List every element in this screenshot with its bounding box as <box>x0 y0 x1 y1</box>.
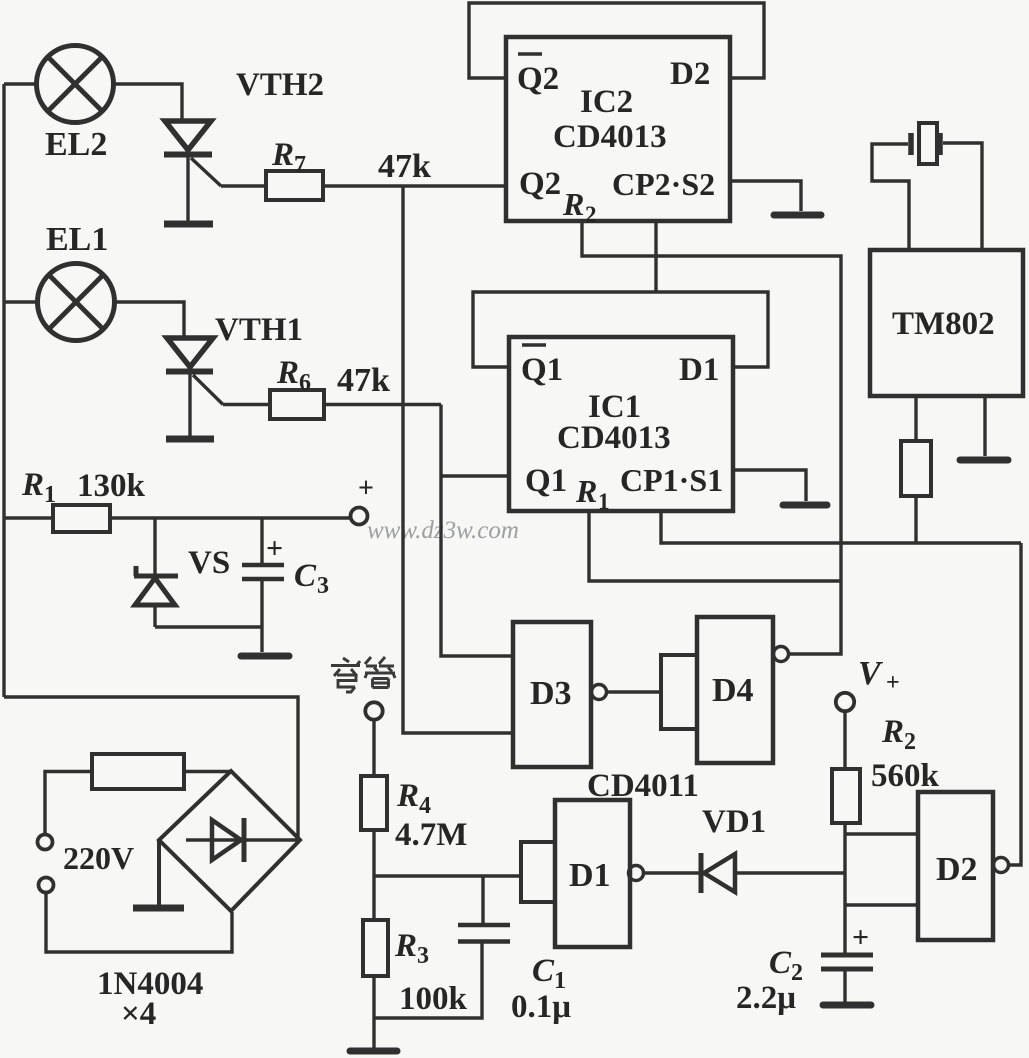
wire left rail <box>2 84 5 697</box>
svg-text:VTH1: VTH1 <box>215 312 303 348</box>
svg-text:Q2: Q2 <box>519 166 561 202</box>
svg-text:D2: D2 <box>936 851 978 888</box>
svg-text:CD4013: CD4013 <box>557 420 671 456</box>
wire terminal to R4 <box>372 719 375 776</box>
svg-text:R: R <box>562 186 584 222</box>
gate D1 <box>521 842 555 902</box>
ground under C3 <box>241 653 289 660</box>
svg-text:Q2: Q2 <box>517 61 559 97</box>
gate D2 <box>918 792 993 940</box>
svg-text:7: 7 <box>294 152 306 178</box>
wire R6 to node <box>324 403 441 406</box>
wire fuse right to bridge top <box>184 770 231 773</box>
capacitor C1 <box>458 876 510 942</box>
svg-text:CP1·S1: CP1·S1 <box>620 462 723 498</box>
svg-text:D4: D4 <box>712 672 754 709</box>
label C2 2.2u <box>736 945 803 1016</box>
wire D3 to D4 <box>607 690 661 693</box>
thyristor VTH2 <box>164 121 221 224</box>
svg-text:2.2μ: 2.2μ <box>736 980 796 1016</box>
node terminal wan guan <box>365 702 382 719</box>
resistor below TM802 <box>901 441 931 496</box>
resistor R7 <box>266 171 323 200</box>
resistor R4 <box>361 776 387 830</box>
wire IC1 R1 pin to D4 net <box>589 511 841 581</box>
lamp EL1 <box>38 264 115 341</box>
svg-text:4: 4 <box>419 793 431 819</box>
bridge rectifier 1N4004 x4 <box>159 771 300 911</box>
svg-text:VD1: VD1 <box>702 804 766 840</box>
wire EL1 to VTH1 <box>115 302 185 337</box>
svg-text:VS: VS <box>188 545 230 581</box>
wire rail to R1 <box>4 516 53 519</box>
crystal sensor <box>911 123 940 164</box>
wire TM802 right pin to ground <box>983 396 986 456</box>
capacitor C3 <box>242 518 284 652</box>
wire VTH2 gate to R7 <box>221 184 266 187</box>
wire R3 to ground <box>372 976 375 1048</box>
label C1 0.1u <box>511 953 571 1025</box>
node terminal bottom <box>39 878 54 893</box>
diode VD1 <box>701 853 735 893</box>
wire node to Q1 <box>441 474 509 477</box>
svg-text:C: C <box>294 558 317 594</box>
node V+ terminal <box>836 693 854 711</box>
wire CP2S2 to ground <box>730 181 801 211</box>
IC1 CD4013 <box>509 337 733 511</box>
wire R1 to + terminal <box>110 516 351 519</box>
wire resistor to D2 net <box>914 496 917 543</box>
wire IC2 pin to Q1bar net <box>654 221 657 292</box>
ground TM802 <box>960 457 1008 464</box>
svg-text:0.1μ: 0.1μ <box>511 989 571 1025</box>
wire VTH1 gate to R6 <box>223 403 270 406</box>
overbar Q1 <box>522 343 546 347</box>
wire bottom terminal to bridge <box>46 893 232 952</box>
svg-text:C: C <box>532 953 555 989</box>
svg-text:D1: D1 <box>569 857 611 894</box>
svg-text:+: + <box>852 921 869 954</box>
gate D4 <box>661 655 697 729</box>
resistor R3 <box>363 920 388 976</box>
label wan guan (Chinese) <box>331 657 395 692</box>
wire TM802 left pin <box>914 396 917 441</box>
wire node 47k down to D3 <box>403 186 513 733</box>
svg-text:3: 3 <box>417 943 429 969</box>
svg-text:R: R <box>21 467 44 503</box>
svg-text:D2: D2 <box>670 56 710 92</box>
fuse rect 220V input <box>92 754 184 789</box>
svg-text:R: R <box>271 137 294 173</box>
capacitor C2 <box>821 921 873 1002</box>
label R4 4.7M <box>395 778 467 853</box>
bubble D3 out <box>592 685 607 700</box>
wire VD1 to node <box>735 871 845 874</box>
wire CP1S1 to ground <box>733 470 806 501</box>
svg-text:Q1: Q1 <box>521 352 563 388</box>
wire D1 to VD1 <box>644 871 701 874</box>
label R3 100k <box>394 928 468 1017</box>
wire R2 down to C2 <box>843 823 846 955</box>
wire node to D2 input 2 <box>845 903 918 906</box>
ground R3 <box>350 1048 397 1055</box>
lamp EL2 <box>37 46 114 123</box>
gate D3 <box>513 622 591 767</box>
svg-text:560k: 560k <box>871 758 940 794</box>
svg-text:2: 2 <box>585 202 597 227</box>
wire EL2 to VTH2 <box>114 84 183 120</box>
wire D4 out to R2 pin of IC2 <box>582 221 841 654</box>
svg-text:6: 6 <box>299 370 311 396</box>
label R2 560k <box>871 714 940 794</box>
wire D2 out up to net <box>1008 543 1021 865</box>
svg-text:R: R <box>276 355 299 391</box>
svg-text:VTH2: VTH2 <box>236 67 324 103</box>
svg-text:4.7M: 4.7M <box>395 817 467 853</box>
resistor R2 <box>832 769 860 823</box>
svg-text:130k: 130k <box>77 468 146 504</box>
svg-text:EL1: EL1 <box>46 221 108 258</box>
svg-text:R: R <box>396 778 419 814</box>
wire Q2bar to D2 feedback <box>469 3 764 78</box>
svg-text:CD4013: CD4013 <box>553 119 667 155</box>
wire node down to D3 <box>441 405 513 657</box>
svg-text:100k: 100k <box>399 981 468 1017</box>
svg-text:Q1: Q1 <box>525 463 567 499</box>
wire node to D1 input <box>374 874 521 877</box>
wire node to D2 input 1 <box>845 832 918 835</box>
node terminal top <box>38 835 53 850</box>
svg-text:V: V <box>858 655 883 692</box>
bubble D4 out <box>774 647 789 662</box>
thyristor VTH1 <box>166 338 223 439</box>
ground C2 <box>823 1002 871 1009</box>
svg-text:+: + <box>886 670 900 696</box>
wire Q1bar to D1 feedback <box>473 292 768 367</box>
svg-text:3: 3 <box>317 573 329 599</box>
ground CP2S2 <box>774 212 821 219</box>
label R1 130k <box>21 467 146 508</box>
svg-text:47k: 47k <box>378 148 431 185</box>
wire R4 to R3 <box>372 830 375 920</box>
wire C1 bottom to R3 bottom <box>374 944 482 1019</box>
svg-text:www.dz3w.com: www.dz3w.com <box>367 517 519 544</box>
svg-text:+: + <box>358 473 374 504</box>
zener VS <box>134 518 178 627</box>
bubble D1 out <box>629 866 644 881</box>
label C3 <box>294 558 329 599</box>
svg-text:CP2·S2: CP2·S2 <box>612 166 715 202</box>
svg-text:1: 1 <box>598 489 610 514</box>
ground CP1S1 <box>783 502 827 509</box>
wire VS to C3 <box>155 625 262 628</box>
svg-text:R: R <box>881 714 904 750</box>
ground bridge <box>133 840 184 908</box>
svg-text:2: 2 <box>904 729 916 755</box>
svg-text:TM802: TM802 <box>892 306 995 342</box>
svg-text:R: R <box>394 928 417 964</box>
node + terminal <box>351 508 368 525</box>
svg-text:47k: 47k <box>337 362 390 399</box>
wire fuse left to terminal <box>45 772 92 835</box>
wire crystal left to TM802 <box>872 144 909 250</box>
bubble D2 out <box>994 858 1009 873</box>
svg-text:1: 1 <box>44 482 56 508</box>
wire EL2 left <box>4 82 37 85</box>
wire IC1 S1 pin to D2 net <box>661 511 1021 543</box>
svg-text:EL2: EL2 <box>45 126 107 163</box>
resistor R1 <box>53 505 110 532</box>
overbar Q2 <box>518 52 542 56</box>
svg-text:×4: ×4 <box>121 996 156 1032</box>
wire EL1 left <box>4 300 38 303</box>
label R7 <box>271 137 306 178</box>
IC2 CD4013 <box>506 37 730 221</box>
svg-text:+: + <box>266 532 283 565</box>
svg-text:IC2: IC2 <box>580 84 633 120</box>
svg-text:R: R <box>575 473 597 509</box>
label R6 <box>276 355 311 396</box>
svg-text:220V: 220V <box>63 840 134 876</box>
svg-text:C: C <box>769 945 792 981</box>
IC TM802 <box>870 250 1023 396</box>
wire R7 to Q2 <box>323 184 506 187</box>
wire crystal right to TM802 <box>943 143 982 250</box>
svg-text:D3: D3 <box>530 675 572 712</box>
wire V+ to R2 <box>843 711 846 769</box>
wire left loop bottom <box>4 697 298 841</box>
resistor R6 <box>270 390 324 419</box>
svg-text:D1: D1 <box>679 352 719 388</box>
